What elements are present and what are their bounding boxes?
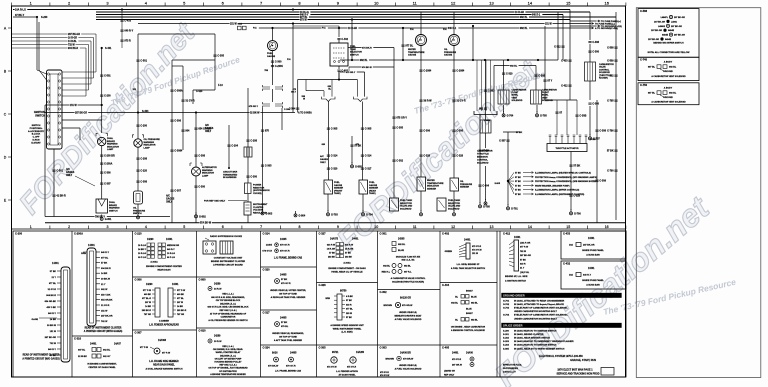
svg-text:977 BL: 977 BL bbox=[177, 298, 185, 300]
svg-text:S-401: S-401 bbox=[105, 47, 112, 50]
svg-text:AT TOP OF ENGINE; REARWARD OF: AT TOP OF ENGINE; REARWARD OF bbox=[210, 312, 247, 315]
svg-text:39 BK-W: 39 BK-W bbox=[101, 279, 111, 281]
svg-text:C-320: C-320 bbox=[331, 168, 338, 171]
wire down from oil gauge bbox=[452, 60, 465, 178]
svg-text:NEAR DASH PANEL: NEAR DASH PANEL bbox=[153, 364, 175, 367]
svg-text:904: 904 bbox=[185, 130, 190, 133]
svg-text:C-307: C-307 bbox=[104, 183, 111, 186]
svg-text:C-501: C-501 bbox=[56, 170, 63, 173]
svg-text:BEHIND I/P, L.H. SIDE: BEHIND I/P, L.H. SIDE bbox=[505, 276, 528, 278]
svg-text:C-308: C-308 bbox=[198, 155, 205, 158]
svg-text:14405: 14405 bbox=[280, 238, 287, 241]
svg-text:151 W: 151 W bbox=[230, 23, 237, 25]
svg-text:ON ENGINE, R.H. SIDE; REAR-: ON ENGINE, R.H. SIDE; REAR- bbox=[213, 348, 244, 351]
svg-text:S-203: S-203 bbox=[503, 341, 510, 343]
fuel gauge sender rear tank bbox=[359, 180, 379, 211]
svg-text:P.U.: P.U. bbox=[322, 28, 326, 30]
connector C-324 box bbox=[261, 345, 317, 373]
svg-text:14401: 14401 bbox=[172, 283, 179, 286]
svg-text:A BUSS BAR: A BUSS BAR bbox=[586, 284, 600, 287]
svg-text:GAUGE: GAUGE bbox=[334, 184, 343, 187]
svg-text:C-412: C-412 bbox=[503, 232, 511, 236]
svg-text:C-314: C-314 bbox=[365, 155, 372, 158]
svg-text:14401: 14401 bbox=[88, 244, 95, 247]
svg-text:CHOKE): CHOKE) bbox=[253, 193, 262, 195]
connector C-303 box bbox=[378, 345, 441, 377]
svg-text:SOLENOID: SOLENOID bbox=[477, 163, 489, 165]
svg-text:G-803: G-803 bbox=[266, 213, 273, 216]
svg-text:A 204A: A 204A bbox=[150, 261, 158, 264]
svg-text:SWITCH: SWITCH bbox=[109, 210, 118, 212]
svg-text:A ENGINE TEMPERATURE SENDER: A ENGINE TEMPERATURE SENDER bbox=[210, 373, 246, 376]
connector C-310 box bbox=[72, 336, 133, 369]
wire below actuator bbox=[569, 152, 580, 211]
splice order table bbox=[502, 323, 622, 350]
wire column x616 right edge bbox=[607, 12, 618, 220]
svg-text:TERMINATED: TERMINATED bbox=[223, 173, 238, 176]
svg-text:57 BK: 57 BK bbox=[345, 252, 351, 254]
svg-text:32 W-BK: 32 W-BK bbox=[78, 356, 87, 358]
svg-text:BLUE: BLUE bbox=[466, 309, 472, 311]
svg-text:ONLY: ONLY bbox=[166, 202, 173, 204]
svg-text:SOLENOID: SOLENOID bbox=[512, 100, 523, 102]
svg-text:TANK): TANK) bbox=[334, 192, 341, 195]
wire 287 BK-GR horizontal bbox=[45, 110, 312, 115]
svg-text:14 BR-Y: 14 BR-Y bbox=[138, 248, 147, 251]
connector C-200A bbox=[74, 232, 122, 334]
svg-text:ON TOP ENGINE BLOCK: ON TOP ENGINE BLOCK bbox=[216, 300, 241, 302]
wire column x183 bbox=[172, 66, 195, 150]
effectivity block bbox=[503, 365, 522, 374]
svg-text:14 BR: 14 BR bbox=[101, 272, 108, 275]
svg-text:283 BK: 283 BK bbox=[345, 256, 353, 258]
svg-text:C-220: C-220 bbox=[140, 170, 147, 173]
svg-text:C-314: C-314 bbox=[263, 232, 271, 236]
svg-text:679 GY-R: 679 GY-R bbox=[452, 359, 462, 361]
svg-text:16: 16 bbox=[605, 225, 609, 229]
svg-text:SENDER: SENDER bbox=[427, 188, 437, 190]
svg-text:287 BK-GR: 287 BK-GR bbox=[45, 337, 57, 339]
svg-text:57 BK: 57 BK bbox=[354, 145, 361, 148]
svg-text:PRESSURE: PRESSURE bbox=[460, 184, 473, 186]
oil pressure warning indicator lamp bbox=[132, 135, 160, 150]
wire 675 GR-Y from selector bbox=[340, 71, 365, 97]
svg-text:679 GY-R: 679 GY-R bbox=[280, 251, 290, 253]
svg-text:GARAGE, START, RUN: GARAGE, START, RUN bbox=[570, 359, 596, 362]
svg-text:283 BK: 283 BK bbox=[328, 256, 336, 258]
svg-text:C-795: C-795 bbox=[607, 100, 614, 103]
svg-text:151 W: 151 W bbox=[50, 331, 57, 333]
svg-text:782 W: 782 W bbox=[520, 251, 526, 253]
svg-text:A FUEL VALVE SOLENOID: A FUEL VALVE SOLENOID bbox=[395, 318, 422, 321]
svg-text:DATE 8-1-77: DATE 8-1-77 bbox=[503, 371, 517, 374]
ground bus wire 57 BK-W bottom bbox=[45, 222, 625, 225]
ground below front sender bbox=[327, 210, 329, 213]
svg-text:UNDER VEHICLE,: UNDER VEHICLE, bbox=[399, 312, 417, 314]
divider right tables bbox=[499, 231, 501, 377]
svg-text:IN 14401,NEAR I/O TO EMERGENCY: IN 14401,NEAR I/O TO EMERGENCY WARNING F… bbox=[514, 340, 574, 343]
svg-text:982: 982 bbox=[610, 75, 615, 78]
svg-text:C-509: C-509 bbox=[607, 60, 614, 63]
svg-text:SENDER: SENDER bbox=[334, 188, 344, 190]
svg-text:ELECTRICAL SYSTEM 1975-F-100-3: ELECTRICAL SYSTEM 1975-F-100-350 bbox=[539, 355, 583, 358]
svg-text:15: 15 bbox=[566, 225, 570, 229]
svg-text:SWITCH: SWITCH bbox=[35, 114, 45, 117]
connector C-740 box bbox=[638, 57, 699, 80]
svg-text:INDICATOR: INDICATOR bbox=[202, 172, 214, 175]
svg-text:450 Y-BK: 450 Y-BK bbox=[47, 306, 57, 309]
svg-text:BEHIND W/S WIPER SWITCH: BEHIND W/S WIPER SWITCH bbox=[653, 43, 684, 45]
connector C-800 box bbox=[197, 277, 261, 322]
svg-text:EYELET,PART OF CARBURETOR VENT: EYELET,PART OF CARBURETOR VENT SOLENOID, bbox=[514, 307, 568, 310]
svg-text:A BODY: A BODY bbox=[664, 87, 673, 90]
wire below bracket C-408 bbox=[478, 66, 494, 204]
connector C-301 box bbox=[380, 232, 427, 284]
svg-text:BRAKE: BRAKE bbox=[109, 204, 117, 207]
svg-text:G-704: G-704 bbox=[366, 214, 373, 217]
svg-text:654 GR-BK: 654 GR-BK bbox=[45, 300, 57, 303]
svg-text:C-200: C-200 bbox=[140, 125, 147, 128]
svg-text:679 GY-R: 679 GY-R bbox=[281, 283, 291, 285]
svg-text:151 W: 151 W bbox=[70, 105, 77, 107]
svg-text:674 BK-R: 674 BK-R bbox=[362, 47, 372, 50]
svg-text:A CARBURETOR VENT SOLENOID: A CARBURETOR VENT SOLENOID bbox=[651, 101, 686, 104]
svg-text:C-402: C-402 bbox=[442, 232, 450, 236]
svg-text:977 P-W: 977 P-W bbox=[520, 247, 528, 249]
svg-text:16A: 16A bbox=[569, 274, 573, 277]
svg-text:DUAL: DUAL bbox=[109, 201, 116, 204]
left ruler marks bbox=[4, 27, 12, 203]
svg-text:B-LOCK: B-LOCK bbox=[32, 134, 41, 136]
svg-text:C-OFF: C-OFF bbox=[33, 137, 40, 139]
svg-text:57 BK: 57 BK bbox=[515, 185, 521, 187]
svg-text:CARBURETOR: CARBURETOR bbox=[599, 63, 614, 66]
instrument cluster voltage regulator bbox=[244, 202, 268, 223]
svg-text:LAMP: LAMP bbox=[202, 174, 209, 177]
svg-text:99 P-LG: 99 P-LG bbox=[167, 257, 175, 259]
connector C-405 box bbox=[440, 345, 497, 377]
svg-text:646 P-W: 646 P-W bbox=[327, 243, 335, 246]
svg-text:SERVICE AND TRACKING NON PROD: SERVICE AND TRACKING NON PROD bbox=[556, 372, 599, 375]
oil pressure switch bbox=[133, 191, 146, 215]
svg-text:G-708: G-708 bbox=[483, 206, 490, 209]
svg-text:640 R: 640 R bbox=[346, 303, 352, 306]
svg-text:GAUGE: GAUGE bbox=[267, 55, 276, 58]
svg-text:CARBURETOR: CARBURETOR bbox=[542, 89, 557, 92]
wire x352 lower with ground bbox=[350, 136, 361, 163]
svg-text:P.U.: P.U. bbox=[410, 29, 414, 31]
connector C-317 box bbox=[261, 310, 317, 342]
svg-text:977 P-W: 977 P-W bbox=[140, 347, 148, 349]
svg-text:14401: 14401 bbox=[588, 267, 595, 270]
merge bracket front tank bbox=[322, 97, 338, 180]
svg-text:34 R-W: 34 R-W bbox=[214, 288, 222, 291]
svg-text:32 BK-W: 32 BK-W bbox=[250, 112, 260, 114]
svg-text:57 BK: 57 BK bbox=[520, 259, 526, 261]
svg-text:A IGNITION SWITCH: A IGNITION SWITCH bbox=[505, 280, 526, 283]
svg-text:OIL PRESSURE: OIL PRESSURE bbox=[144, 139, 161, 141]
svg-text:L49863: L49863 bbox=[658, 25, 666, 28]
svg-text:A EMISSION CONTROL SOLENOID: A EMISSION CONTROL SOLENOID bbox=[451, 329, 485, 332]
svg-text:C-208: C-208 bbox=[250, 140, 257, 143]
wire drop x352 bbox=[351, 18, 353, 61]
svg-text:FUEL: FUEL bbox=[350, 46, 356, 48]
svg-text:675 GY-R: 675 GY-R bbox=[472, 246, 482, 248]
svg-text:C-300: C-300 bbox=[275, 61, 282, 64]
svg-text:ON LEFT OF WATER PUMP: ON LEFT OF WATER PUMP bbox=[215, 357, 242, 360]
svg-text:982 BL: 982 BL bbox=[471, 320, 479, 322]
svg-text:WARNING: WARNING bbox=[109, 207, 120, 210]
svg-text:16 R-LG: 16 R-LG bbox=[138, 245, 146, 247]
svg-text:PROTECTION &amp; CONVENIENCE,: PROTECTION &amp; CONVENIENCE, (W/B WARNI… bbox=[535, 180, 598, 183]
svg-text:C-404: C-404 bbox=[482, 185, 489, 188]
svg-text:AT DASH PANEL: AT DASH PANEL bbox=[338, 373, 356, 376]
svg-text:57 BK: 57 BK bbox=[515, 177, 521, 179]
svg-text:C-305: C-305 bbox=[217, 55, 224, 58]
svg-text:287 BK-GR: 287 BK-GR bbox=[75, 112, 87, 114]
watermark 2 bbox=[330, 53, 547, 258]
svg-text:POWER: POWER bbox=[253, 185, 262, 187]
svg-text:TO FUSE PANEL(+): TO FUSE PANEL(+) bbox=[595, 23, 615, 26]
svg-text:G-804: G-804 bbox=[299, 215, 306, 218]
svg-text:REAR OF INSTRUMENT CLUSTER: REAR OF INSTRUMENT CLUSTER bbox=[85, 327, 122, 330]
svg-text:21 Y: 21 Y bbox=[101, 284, 106, 286]
connector C-810 box bbox=[197, 328, 261, 376]
svg-text:732 W: 732 W bbox=[68, 45, 75, 47]
svg-text:15: 15 bbox=[566, 1, 571, 6]
svg-text:IN 14401, ATTACHED TO &quot;Y&: IN 14401, ATTACHED TO &quot;Y&quot; BRAC… bbox=[514, 303, 564, 306]
svg-text:C-307: C-307 bbox=[499, 140, 506, 143]
svg-text:973 W: 973 W bbox=[300, 19, 307, 21]
svg-text:151 W: 151 W bbox=[101, 310, 108, 312]
svg-text:904 BK-R: 904 BK-R bbox=[46, 294, 56, 297]
svg-text:904 BK-R: 904 BK-R bbox=[68, 47, 79, 50]
svg-text:577 P-W: 577 P-W bbox=[143, 290, 151, 292]
svg-text:SENDER: SENDER bbox=[369, 188, 379, 190]
svg-text:ALTERNATOR: ALTERNATOR bbox=[202, 166, 217, 169]
svg-text:460 BK: 460 BK bbox=[177, 293, 185, 296]
svg-text:UNDER VEHICLE,: UNDER VEHICLE, bbox=[399, 365, 417, 367]
ignition switch bbox=[28, 70, 62, 149]
svg-text:A 204A: A 204A bbox=[343, 262, 351, 265]
wire 16 R-GR mid horizontal bbox=[255, 27, 618, 30]
svg-text:SELECTOR: SELECTOR bbox=[400, 203, 412, 205]
svg-text:ILLUMINATION LAMPS, (HEATER WI: ILLUMINATION LAMPS, (HEATER WIRE A/C CON… bbox=[535, 172, 591, 175]
svg-text:982 BL: 982 BL bbox=[520, 17, 528, 19]
svg-text:57 BK: 57 BK bbox=[573, 165, 580, 168]
svg-text:C-412: C-412 bbox=[561, 85, 568, 88]
svg-text:297 BK-GR: 297 BK-GR bbox=[674, 35, 685, 37]
svg-text:IN 14401, NEAR I/O TO W/S/W WA: IN 14401, NEAR I/O TO W/S/W WASHER SWITC… bbox=[514, 347, 565, 350]
svg-text:GREEN: GREEN bbox=[445, 251, 453, 253]
svg-text:S-204: S-204 bbox=[503, 344, 510, 347]
svg-text:WARD; STARTER RELAY: WARD; STARTER RELAY bbox=[216, 351, 241, 354]
svg-text:9A26: 9A26 bbox=[272, 352, 278, 355]
connector C-327 box bbox=[319, 232, 367, 274]
svg-text:A-ACCESSORY: A-ACCESSORY bbox=[28, 130, 45, 133]
oil pressure lamp column bbox=[133, 34, 148, 139]
svg-text:14 BR: 14 BR bbox=[145, 305, 151, 308]
ground G-704 bbox=[502, 111, 514, 118]
svg-text:640 R-1: 640 R-1 bbox=[448, 27, 457, 30]
svg-text:57 BK: 57 BK bbox=[515, 194, 521, 196]
svg-text:CIRCUIT BKR: CIRCUIT BKR bbox=[223, 172, 238, 174]
svg-text:G-703: G-703 bbox=[331, 214, 338, 217]
svg-text:16 R-GR: 16 R-GR bbox=[345, 248, 354, 250]
wire 151 W to selector bbox=[253, 24, 339, 113]
svg-text:679 GY-R: 679 GY-R bbox=[280, 245, 290, 247]
fuel tank selector valve 2 bbox=[437, 191, 461, 211]
svg-text:C-740: C-740 bbox=[640, 58, 648, 62]
svg-text:C-501: C-501 bbox=[140, 60, 147, 63]
svg-text:C-300: C-300 bbox=[250, 176, 257, 179]
svg-text:C-309: C-309 bbox=[599, 180, 606, 183]
svg-text:982 BL: 982 BL bbox=[471, 303, 479, 305]
a/c gages note 3 bbox=[320, 155, 328, 164]
svg-text:GAGES: GAGES bbox=[66, 171, 75, 174]
svg-text:679 GY-R: 679 GY-R bbox=[262, 251, 272, 253]
svg-text:997 R-L: 997 R-L bbox=[404, 272, 412, 274]
svg-text:RED (.1-.4-): RED (.1-.4-) bbox=[222, 293, 234, 296]
connector C-432 box bbox=[561, 261, 626, 289]
svg-text:14401: 14401 bbox=[352, 238, 359, 241]
svg-text:IN ENGINE COMPARTMENT,: IN ENGINE COMPARTMENT, bbox=[87, 363, 117, 366]
svg-text:BLUE: BLUE bbox=[471, 297, 477, 299]
svg-text:C-300: C-300 bbox=[592, 103, 599, 106]
svg-text:675 GR-Y: 675 GR-Y bbox=[396, 117, 407, 120]
svg-text:G-701: G-701 bbox=[503, 301, 510, 303]
svg-text:982 BL: 982 BL bbox=[404, 266, 412, 268]
svg-text:A/C: A/C bbox=[166, 195, 170, 198]
carburetor throttle emission control solenoid bbox=[477, 60, 495, 200]
svg-text:A OIL PRESSURE SENDER OR SWITC: A OIL PRESSURE SENDER OR SWITCH bbox=[208, 319, 248, 322]
connector C-200 bbox=[15, 232, 70, 363]
svg-text:982 BL: 982 BL bbox=[383, 266, 391, 268]
ground G-705 bbox=[536, 111, 538, 114]
svg-text:A ENGINE SPEED SENSOR UNIT: A ENGINE SPEED SENSOR UNIT bbox=[330, 324, 364, 327]
svg-text:SWITCH: SWITCH bbox=[350, 54, 359, 56]
svg-text:C-308: C-308 bbox=[140, 181, 147, 184]
svg-text:14A093: 14A093 bbox=[158, 339, 167, 342]
a/c gages note 4 bbox=[166, 195, 175, 204]
connector C-328 box bbox=[317, 283, 378, 334]
svg-text:674 BK-W: 674 BK-W bbox=[362, 66, 372, 69]
svg-text:9484E: 9484E bbox=[665, 38, 672, 41]
svg-text:10 R-LG: 10 R-LG bbox=[167, 253, 175, 255]
water temperature gauge bbox=[408, 12, 427, 60]
svg-text:A/C: A/C bbox=[320, 155, 324, 158]
svg-text:A/C: A/C bbox=[66, 168, 70, 171]
power resistor suppression choke bbox=[245, 183, 270, 202]
svg-text:13: 13 bbox=[490, 225, 494, 229]
svg-text:TEMPERATURE: TEMPERATURE bbox=[427, 182, 444, 185]
svg-text:57 BK: 57 BK bbox=[329, 252, 335, 254]
svg-text:FOR REF USE ONLY: FOR REF USE ONLY bbox=[204, 201, 226, 203]
svg-text:TEMPERATURE: TEMPERATURE bbox=[408, 51, 425, 54]
svg-text:87 Y: 87 Y bbox=[547, 80, 552, 83]
svg-text:5: 5 bbox=[183, 225, 185, 229]
svg-text:57 BK: 57 BK bbox=[607, 150, 614, 153]
svg-text:(L.H. SIDE): (L.H. SIDE) bbox=[341, 332, 352, 334]
svg-text:GAGE: GAGE bbox=[32, 318, 39, 321]
svg-text:287 BK-GR: 287 BK-GR bbox=[68, 34, 80, 36]
svg-text:CARBURETOR: CARBURETOR bbox=[477, 150, 493, 153]
svg-text:283 BK-R: 283 BK-R bbox=[177, 310, 187, 312]
svg-text:14401: 14401 bbox=[90, 343, 97, 346]
svg-text:ON TOP OF TANK: ON TOP OF TANK bbox=[279, 292, 298, 295]
svg-text:C-402: C-402 bbox=[341, 38, 348, 41]
fuel tank selector switch bbox=[330, 26, 362, 78]
svg-text:297 W: 297 W bbox=[177, 302, 183, 304]
splice S-401 bbox=[101, 47, 112, 50]
svg-text:21 Y: 21 Y bbox=[52, 277, 57, 279]
svg-text:C-328: C-328 bbox=[456, 155, 463, 158]
svg-text:9A126 GR: 9A126 GR bbox=[400, 297, 411, 300]
svg-text:57 BK: 57 BK bbox=[515, 190, 521, 192]
svg-text:S-805: S-805 bbox=[503, 348, 510, 350]
svg-text:FLOAT: FLOAT bbox=[542, 91, 550, 94]
svg-text:14290: 14290 bbox=[147, 238, 154, 241]
throttle actuator bbox=[547, 100, 597, 152]
svg-text:SWITCH: SWITCH bbox=[32, 125, 41, 127]
svg-text:57 BK: 57 BK bbox=[515, 181, 521, 183]
svg-text:ONLY: ONLY bbox=[66, 175, 73, 177]
wire bus 16 R-LG bbox=[96, 11, 590, 14]
svg-text:C-433: C-433 bbox=[561, 60, 568, 63]
svg-text:14: 14 bbox=[528, 225, 532, 229]
svg-text:31 GY-R: 31 GY-R bbox=[101, 305, 110, 307]
watermark 2 tagline bbox=[413, 69, 547, 116]
svg-text:F-10: F-10 bbox=[218, 85, 223, 87]
svg-text:THROTTLE: THROTTLE bbox=[477, 154, 489, 156]
svg-text:SOLENOID(THROTTLE KICKER): SOLENOID(THROTTLE KICKER) bbox=[392, 281, 424, 283]
svg-text:962 BL: 962 BL bbox=[103, 350, 111, 352]
svg-text:TANK: TANK bbox=[350, 48, 356, 51]
svg-text:W: W bbox=[303, 99, 305, 101]
svg-text:FUEL: FUEL bbox=[369, 182, 375, 184]
svg-text:4 R-BK: 4 R-BK bbox=[346, 295, 353, 298]
svg-text:L484PL: L484PL bbox=[661, 16, 669, 19]
svg-text:SOLENOID: SOLENOID bbox=[400, 208, 412, 210]
svg-text:BRN: BRN bbox=[325, 298, 330, 300]
svg-text:C-305: C-305 bbox=[396, 127, 403, 130]
svg-text:962 GY: 962 GY bbox=[103, 356, 111, 358]
ground below rear sender bbox=[362, 210, 364, 213]
svg-text:L.H. FRAME, BEHIND CAB: L.H. FRAME, BEHIND CAB bbox=[274, 257, 303, 260]
svg-text:INSIDE FUSE PANEL: INSIDE FUSE PANEL bbox=[582, 249, 604, 252]
svg-text:16A: 16A bbox=[569, 244, 573, 247]
svg-text:675 GR-Y: 675 GR-Y bbox=[249, 106, 259, 108]
main border frame bbox=[12, 6, 626, 377]
svg-text:UNDER CARBURETOR MOUNTING BOLT: UNDER CARBURETOR MOUNTING BOLT bbox=[514, 310, 557, 313]
svg-text:640 R-Y: 640 R-Y bbox=[101, 251, 110, 254]
svg-text:C-300: C-300 bbox=[592, 51, 599, 54]
svg-text:RED (.1-.4-): RED (.1-.4-) bbox=[222, 345, 234, 348]
wire bus 977 BL bbox=[96, 16, 616, 19]
svg-text:16 R-GR: 16 R-GR bbox=[68, 38, 77, 40]
svg-text:297 BK-GR: 297 BK-GR bbox=[674, 17, 685, 19]
alternator warning indicator lamp bbox=[190, 111, 217, 222]
connector C-404 box bbox=[440, 283, 497, 333]
svg-text:16 R-GR: 16 R-GR bbox=[348, 28, 357, 30]
svg-text:14401: 14401 bbox=[452, 352, 459, 355]
svg-text:14289: 14289 bbox=[214, 335, 221, 338]
svg-text:297 W: 297 W bbox=[145, 302, 151, 304]
svg-text:PRESSURE: PRESSURE bbox=[444, 52, 457, 54]
svg-text:1976 ELECT INST MAN PAGE 1: 1976 ELECT INST MAN PAGE 1 bbox=[557, 369, 593, 372]
svg-text:57 BK: 57 BK bbox=[281, 322, 288, 324]
svg-text:4: 4 bbox=[145, 225, 147, 229]
